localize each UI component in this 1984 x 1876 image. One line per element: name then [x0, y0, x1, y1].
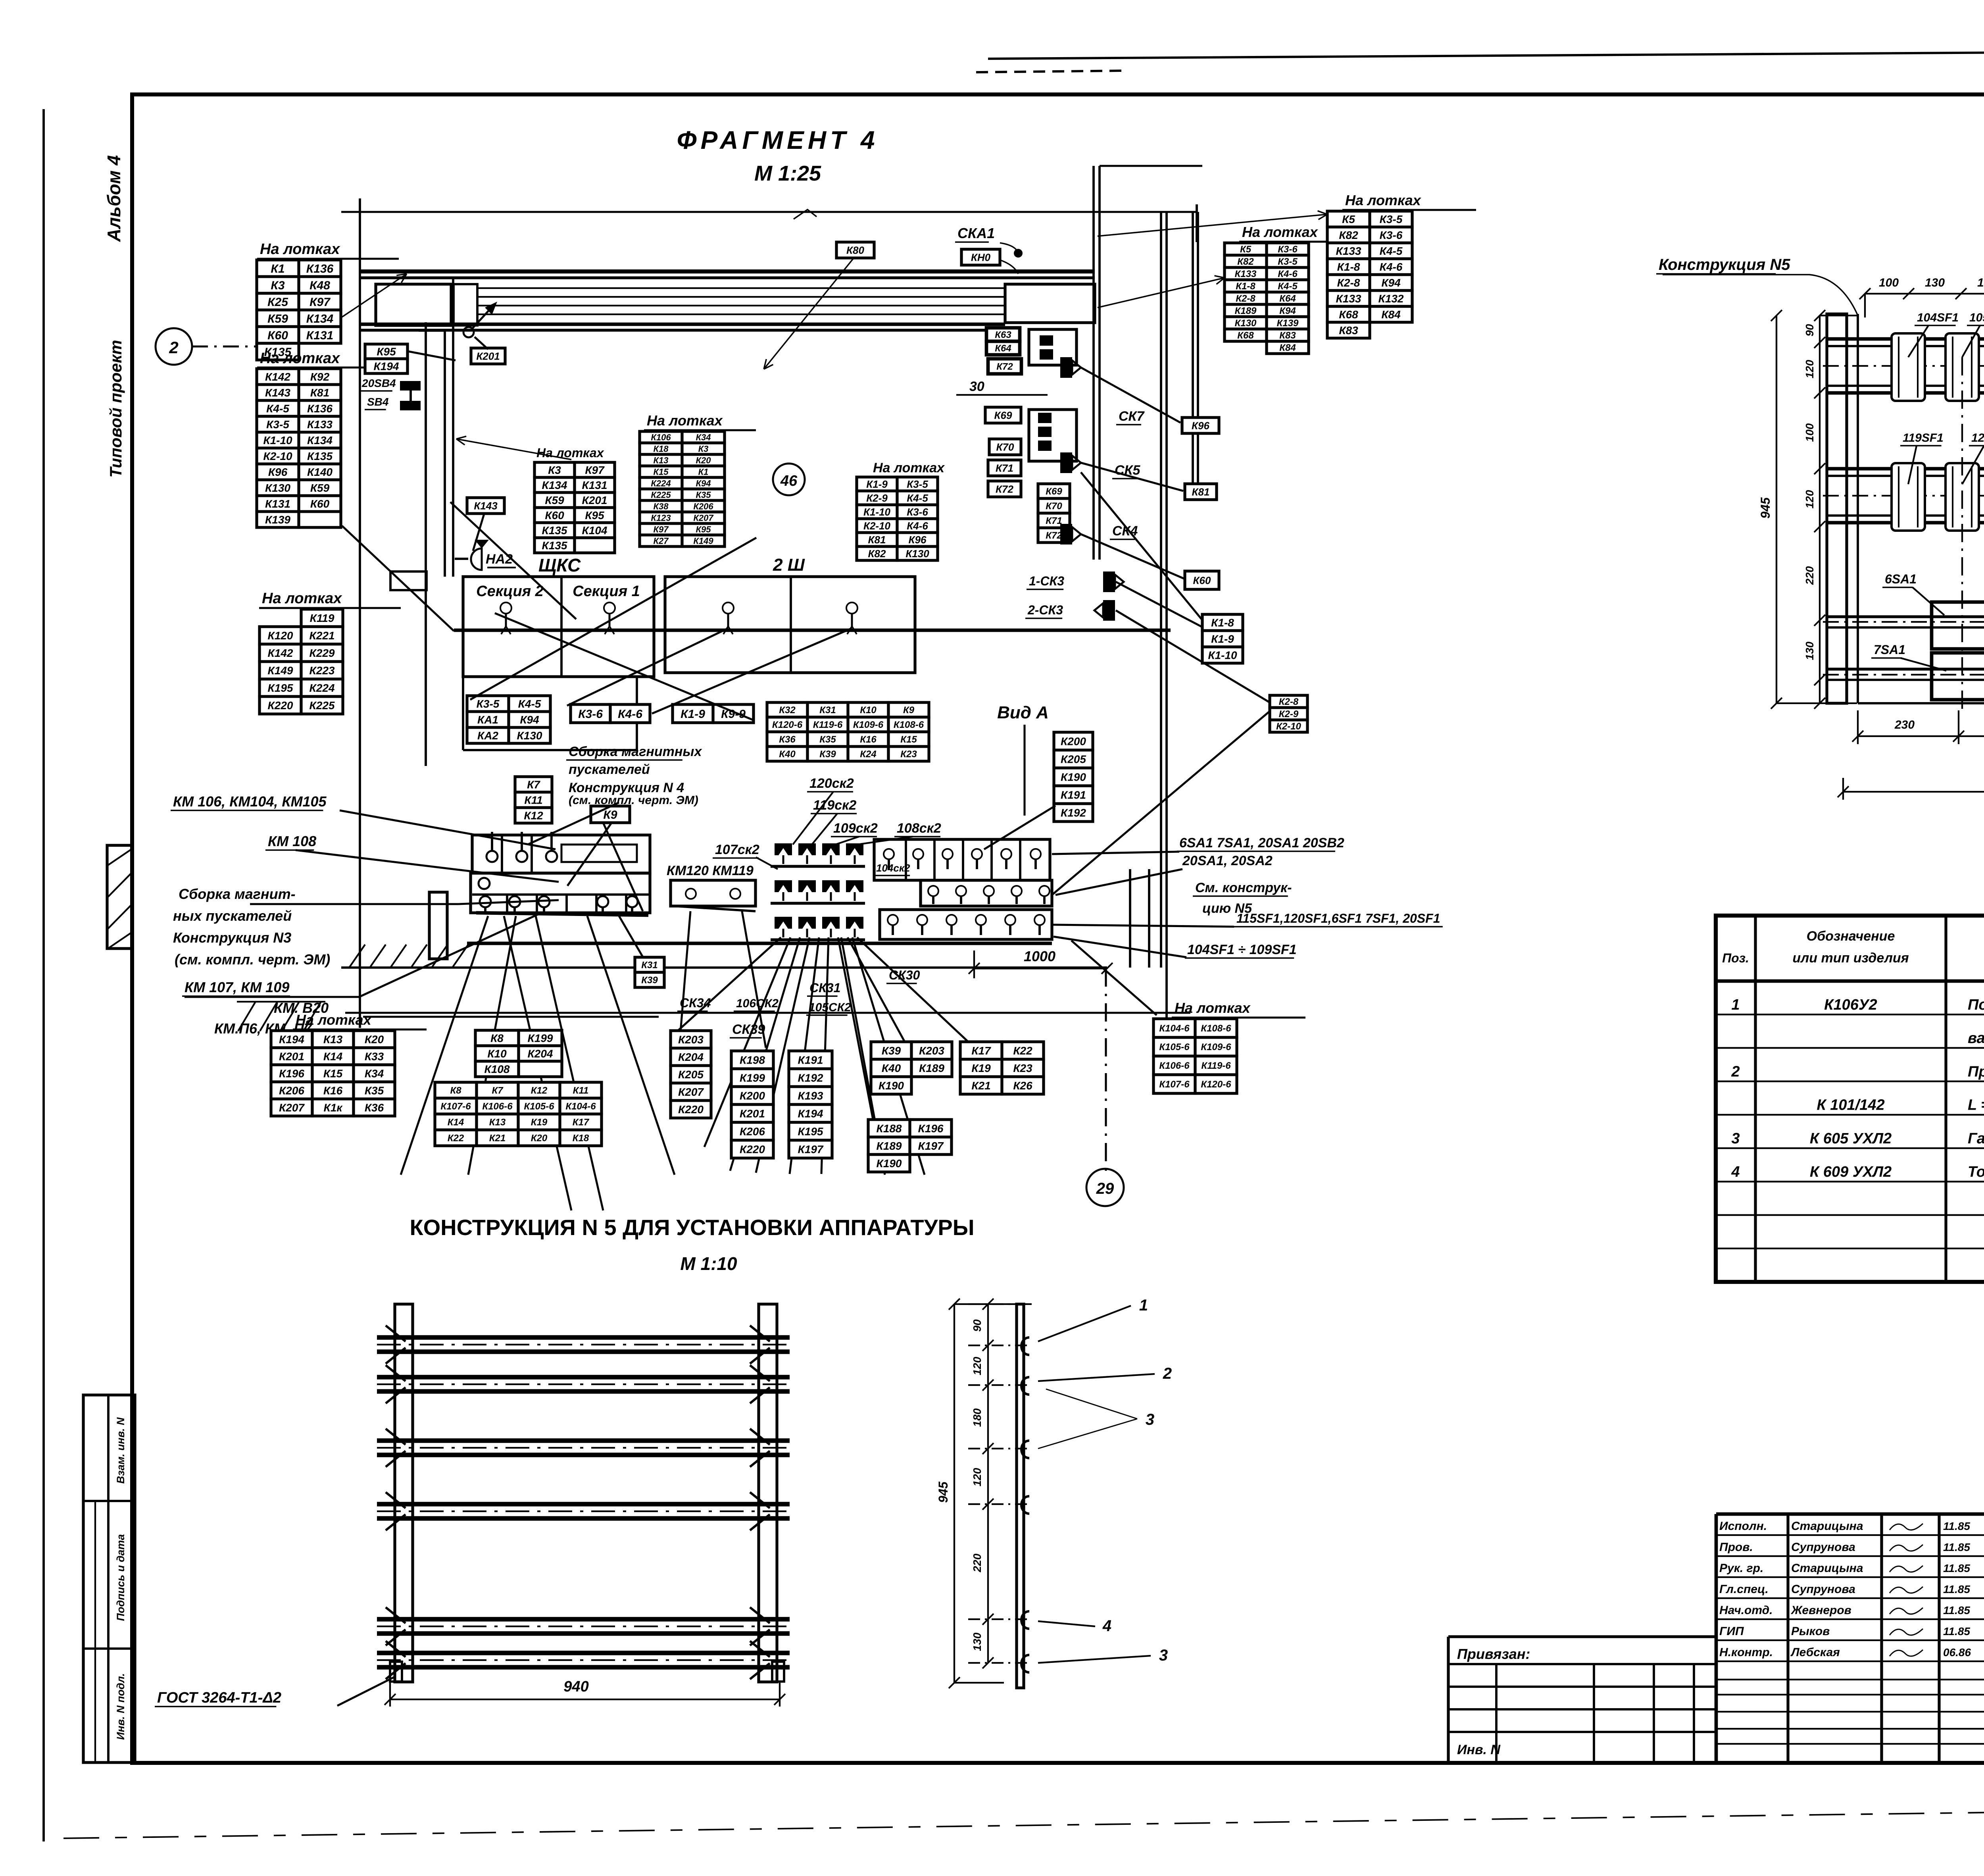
- svg-text:1: 1: [1731, 997, 1740, 1013]
- svg-text:КМ 108: КМ 108: [268, 833, 316, 849]
- svg-text:Инв. N: Инв. N: [1457, 1742, 1501, 1757]
- svg-text:Альбом 4: Альбом 4: [104, 155, 124, 242]
- svg-text:120: 120: [971, 1356, 983, 1375]
- svg-text:К189: К189: [877, 1140, 902, 1152]
- svg-text:К18: К18: [573, 1133, 589, 1144]
- svg-text:К94: К94: [696, 478, 711, 488]
- svg-text:К13: К13: [489, 1117, 506, 1128]
- label K72: [988, 481, 1021, 497]
- svg-text:К34: К34: [365, 1068, 384, 1080]
- label K143: [467, 498, 504, 514]
- svg-text:К3-5: К3-5: [477, 698, 500, 710]
- table K191 col: [789, 1051, 832, 1158]
- svg-text:К3-5: К3-5: [1278, 256, 1298, 267]
- svg-text:КМ 107, КМ 109: КМ 107, КМ 109: [185, 979, 289, 995]
- svg-text:130: 130: [1925, 276, 1945, 289]
- table T8: [1327, 211, 1412, 338]
- svg-text:К136: К136: [307, 402, 333, 415]
- wall pair right 2: [1098, 166, 1101, 560]
- svg-text:На лотках: На лотках: [260, 241, 340, 258]
- label K69: [985, 407, 1021, 423]
- svg-text:К136: К136: [306, 262, 334, 275]
- svg-text:Инв. N подл.: Инв. N подл.: [115, 1673, 127, 1740]
- svg-text:К48: К48: [310, 279, 330, 292]
- svg-text:К119-6: К119-6: [1201, 1060, 1231, 1071]
- starter base line: [476, 913, 648, 915]
- svg-text:К17: К17: [573, 1117, 590, 1128]
- wall pier rect: [429, 892, 447, 959]
- svg-text:К3-5: К3-5: [266, 418, 289, 431]
- svg-text:К20: К20: [696, 455, 711, 465]
- label K80: [836, 242, 874, 258]
- svg-text:Полоса монтажная перфорире-: Полоса монтажная перфорире-: [1968, 997, 1984, 1013]
- svg-text:К35: К35: [696, 490, 711, 500]
- svg-text:ГИП: ГИП: [1719, 1625, 1744, 1638]
- label K70: [989, 439, 1021, 455]
- side total 945: [954, 1304, 955, 1683]
- svg-text:ГОСТ 3264-Т1-Δ2: ГОСТ 3264-Т1-Δ2: [157, 1689, 281, 1706]
- svg-text:К207: К207: [279, 1102, 305, 1114]
- svg-text:К149: К149: [693, 536, 713, 546]
- table K39 K203: [871, 1042, 952, 1094]
- svg-text:130: 130: [971, 1632, 983, 1651]
- plan top wall lower: [360, 276, 1095, 279]
- tray line 1: [477, 287, 1005, 289]
- svg-text:2: 2: [169, 338, 178, 357]
- svg-text:К35: К35: [365, 1085, 384, 1097]
- leader 120SK2: [793, 792, 833, 845]
- svg-text:К82: К82: [868, 548, 886, 560]
- svg-text:К64: К64: [1279, 293, 1296, 304]
- svg-text:945: 945: [936, 1481, 950, 1503]
- svg-text:К95: К95: [585, 509, 604, 521]
- svg-text:То же: То же: [1968, 1164, 1984, 1180]
- svg-text:К9: К9: [603, 808, 617, 822]
- svg-text:К123: К123: [651, 513, 671, 523]
- svg-text:К106-6: К106-6: [482, 1101, 513, 1112]
- svg-text:06.86: 06.86: [1943, 1646, 1971, 1659]
- svg-text:На лотках: На лотках: [647, 412, 723, 429]
- table bottom 4x4: [435, 1082, 602, 1146]
- leader to Na lotkah bottom-right: [1071, 941, 1157, 1015]
- svg-text:К190: К190: [1061, 771, 1086, 783]
- svg-text:Старицына: Старицына: [1791, 1562, 1863, 1575]
- svg-text:К15: К15: [900, 734, 917, 745]
- lamp symbol NA2: [471, 548, 482, 570]
- SK2 connector r0c2: [822, 843, 840, 864]
- svg-text:К1-8: К1-8: [1337, 261, 1360, 273]
- label K201: [471, 348, 505, 364]
- leader K80 to wall: [764, 259, 853, 369]
- connector SK7: [1060, 357, 1081, 378]
- right wall line 2: [1165, 212, 1168, 1028]
- svg-text:L = 940 мм: L = 940 мм: [1968, 1097, 1984, 1114]
- long diagonal leader 3: [495, 613, 754, 720]
- section circle 29: [1086, 1169, 1124, 1206]
- svg-text:К13: К13: [323, 1033, 343, 1046]
- svg-text:130: 130: [1977, 276, 1984, 289]
- svg-text:К82: К82: [1339, 229, 1358, 241]
- svg-text:К106-6: К106-6: [1159, 1060, 1190, 1071]
- svg-text:К59: К59: [267, 312, 288, 325]
- table K1-8 group: [1202, 614, 1243, 663]
- ViewA left dimension chain: [1819, 316, 1821, 703]
- svg-text:К204: К204: [678, 1051, 704, 1063]
- operator figure 2: [604, 602, 615, 634]
- svg-text:К192: К192: [1061, 807, 1086, 819]
- svg-text:К206: К206: [693, 501, 713, 511]
- svg-text:К225: К225: [651, 490, 671, 500]
- svg-text:К194: К194: [798, 1108, 823, 1120]
- ViewA total height 945: [1776, 316, 1777, 703]
- svg-text:К59: К59: [545, 494, 564, 506]
- svg-text:К109-6: К109-6: [853, 720, 884, 730]
- svg-text:К196: К196: [918, 1122, 944, 1135]
- svg-text:90: 90: [1803, 324, 1816, 337]
- panel ShchKS: [463, 577, 654, 677]
- svg-text:К221: К221: [310, 629, 335, 642]
- SK2 connector r1c0: [775, 880, 792, 901]
- label K3-6 K4-6: [571, 704, 650, 723]
- svg-text:К11: К11: [524, 794, 542, 806]
- svg-text:К1-8: К1-8: [1211, 617, 1234, 629]
- table T6: [857, 477, 938, 560]
- svg-text:Конструкция N5: Конструкция N5: [1659, 256, 1790, 273]
- rack rail 3: [377, 1438, 790, 1443]
- svg-text:К9: К9: [903, 705, 915, 716]
- rack rail 5: [377, 1617, 790, 1622]
- svg-text:945: 945: [1758, 497, 1773, 519]
- svg-text:К22: К22: [448, 1133, 464, 1144]
- svg-text:К120: К120: [268, 629, 293, 642]
- right wall line 1: [1160, 212, 1162, 968]
- svg-text:К36: К36: [365, 1102, 384, 1114]
- svg-text:1: 1: [1139, 1297, 1148, 1314]
- leaders of right notes: [1052, 852, 1179, 854]
- svg-text:К92: К92: [310, 371, 330, 383]
- svg-text:К17: К17: [971, 1045, 991, 1057]
- connector 1-SK3: [1103, 571, 1124, 592]
- svg-text:К133: К133: [307, 418, 333, 431]
- leader Vid A: [1023, 725, 1025, 816]
- svg-text:К71: К71: [1046, 516, 1062, 526]
- label KN0: [961, 249, 1000, 265]
- wall pair right 1: [1092, 166, 1095, 560]
- svg-text:К19: К19: [531, 1117, 548, 1128]
- panel ShchKS lower part: [462, 677, 464, 750]
- svg-text:На лотках: На лотках: [260, 350, 340, 367]
- svg-text:К15: К15: [323, 1068, 343, 1080]
- svg-text:11.85: 11.85: [1943, 1583, 1970, 1595]
- long diagonal leader 1: [450, 502, 576, 619]
- long leader to K2-8: [1052, 711, 1270, 895]
- corridor wall 2b: [452, 278, 454, 577]
- svg-text:К21: К21: [971, 1079, 990, 1092]
- tray line 3: [477, 305, 1005, 306]
- svg-text:К133: К133: [1336, 292, 1361, 305]
- svg-text:К201: К201: [279, 1051, 304, 1063]
- svg-text:К1-9: К1-9: [866, 478, 888, 490]
- svg-text:КА1: КА1: [477, 714, 498, 726]
- svg-text:К84: К84: [1279, 342, 1296, 353]
- svg-text:К31: К31: [641, 960, 657, 971]
- svg-text:К12: К12: [524, 810, 543, 822]
- svg-text:К199: К199: [740, 1072, 765, 1084]
- table K2-8 group: [1270, 695, 1307, 732]
- svg-text:106СК2: 106СК2: [736, 997, 779, 1010]
- svg-text:К19: К19: [971, 1062, 991, 1074]
- leader 109SK2: [835, 837, 859, 845]
- svg-text:К3-6: К3-6: [1278, 244, 1298, 255]
- svg-text:К24: К24: [860, 749, 876, 760]
- leader T4 to wall: [456, 436, 571, 460]
- equipment box B: [454, 284, 477, 325]
- leader K143: [473, 514, 484, 551]
- SK2 connector rows (middle): [771, 865, 865, 868]
- svg-text:К133: К133: [1336, 245, 1361, 257]
- svg-text:К191: К191: [1061, 789, 1086, 801]
- svg-text:К198: К198: [740, 1054, 765, 1066]
- svg-text:К1-8: К1-8: [1236, 281, 1255, 292]
- svg-text:К60: К60: [545, 509, 564, 521]
- leaders SF row2: [1908, 446, 1917, 484]
- svg-text:К190: К190: [877, 1157, 902, 1170]
- title block top: [1716, 1512, 1984, 1516]
- svg-text:К97: К97: [654, 524, 669, 534]
- rack rail 2: [377, 1375, 790, 1380]
- svg-text:К119-6: К119-6: [813, 720, 843, 730]
- ViewA rail group 2: [1827, 467, 1984, 471]
- svg-text:К130: К130: [517, 729, 542, 742]
- long diagonal leader 2: [470, 538, 756, 700]
- svg-text:2-СК3: 2-СК3: [1027, 603, 1063, 617]
- svg-text:К81: К81: [310, 387, 329, 399]
- svg-text:К3-6: К3-6: [1380, 229, 1403, 241]
- breaker row2 #2: [1946, 463, 1979, 531]
- svg-text:К2-8: К2-8: [1337, 277, 1360, 289]
- svg-text:К7: К7: [492, 1085, 504, 1096]
- svg-text:К20: К20: [531, 1133, 548, 1144]
- svg-text:30: 30: [969, 379, 984, 394]
- svg-text:К104-6: К104-6: [565, 1101, 596, 1112]
- svg-text:К94: К94: [1279, 306, 1296, 316]
- svg-text:Нач.отд.: Нач.отд.: [1719, 1604, 1773, 1617]
- svg-text:Исполн.: Исполн.: [1719, 1520, 1767, 1533]
- svg-text:К224: К224: [310, 682, 335, 694]
- side item leaders: [1038, 1306, 1131, 1341]
- table bottom-right 4x2: [1153, 1019, 1237, 1093]
- right edge tick: [1196, 204, 1198, 242]
- svg-text:К72: К72: [996, 362, 1013, 372]
- table T3: [260, 609, 343, 714]
- svg-text:К3: К3: [548, 464, 561, 476]
- svg-text:На лотках: На лотках: [1175, 1000, 1251, 1016]
- section circle 46: [773, 464, 805, 495]
- svg-text:К97: К97: [585, 464, 605, 476]
- tray line 4: [477, 314, 1005, 315]
- svg-text:К70: К70: [996, 441, 1014, 453]
- svg-text:7SA1: 7SA1: [1874, 643, 1905, 657]
- connector SK4: [1060, 524, 1081, 545]
- leader to table T8: [1098, 211, 1327, 236]
- svg-text:29: 29: [1096, 1180, 1114, 1197]
- svg-text:К8: К8: [450, 1085, 461, 1096]
- svg-text:К207: К207: [678, 1086, 704, 1098]
- table K17 K22: [960, 1042, 1044, 1094]
- svg-text:Конструкция N 4: Конструкция N 4: [569, 780, 684, 795]
- svg-text:М 1:10: М 1:10: [680, 1253, 737, 1274]
- svg-text:120: 120: [971, 1468, 983, 1486]
- connector SK5: [1060, 452, 1081, 473]
- svg-text:К104-6: К104-6: [1159, 1023, 1190, 1034]
- side view hooks: [1021, 1337, 1029, 1355]
- svg-text:К11: К11: [573, 1085, 589, 1096]
- svg-text:К16: К16: [323, 1085, 343, 1097]
- equipment row base line: [467, 942, 1052, 945]
- svg-text:3: 3: [1731, 1130, 1740, 1147]
- svg-text:К5: К5: [1240, 244, 1252, 255]
- svg-text:К4-6: К4-6: [1278, 269, 1298, 279]
- paper left edge line: [42, 109, 45, 1841]
- plan top wall upper: [360, 269, 1095, 273]
- svg-text:120: 120: [1803, 490, 1816, 508]
- svg-text:На лотках: На лотках: [262, 590, 342, 607]
- svg-text:К131: К131: [306, 329, 334, 342]
- rack rail 1: [377, 1335, 790, 1340]
- table 4x4 K32: [767, 702, 929, 761]
- svg-text:К10: К10: [860, 705, 877, 716]
- svg-text:К 101/142: К 101/142: [1817, 1097, 1884, 1114]
- svg-text:К72: К72: [996, 483, 1013, 495]
- leader 119SK2: [812, 814, 837, 845]
- svg-text:К120-6: К120-6: [1201, 1079, 1231, 1090]
- table K7 group: [515, 777, 552, 823]
- leader K190 table: [984, 806, 1055, 849]
- svg-text:Вид А: Вид А: [997, 703, 1049, 722]
- table K188 K196: [868, 1120, 952, 1172]
- svg-text:220: 220: [971, 1553, 983, 1572]
- svg-text:Пров.: Пров.: [1719, 1541, 1753, 1554]
- corridor stub: [419, 329, 445, 332]
- label K81: [1185, 484, 1217, 500]
- svg-text:Жевнеров: Жевнеров: [1790, 1604, 1851, 1617]
- leader to table T7: [1098, 276, 1225, 308]
- svg-text:К 609 УХЛ2: К 609 УХЛ2: [1810, 1164, 1892, 1180]
- side dim chain: [987, 1304, 989, 1663]
- ViewA left C-profile: [1827, 314, 1847, 703]
- svg-text:119SF1: 119SF1: [1903, 431, 1944, 444]
- svg-text:11.85: 11.85: [1943, 1562, 1970, 1574]
- svg-text:К72: К72: [1046, 530, 1062, 541]
- svg-text:К224: К224: [651, 478, 671, 488]
- svg-text:К105-6: К105-6: [524, 1101, 554, 1112]
- svg-text:К119: К119: [310, 612, 335, 624]
- svg-text:К193: К193: [798, 1090, 823, 1102]
- paper bottom edge line: [63, 1805, 1984, 1838]
- svg-text:К36: К36: [779, 734, 796, 745]
- rack rail 6: [377, 1651, 790, 1655]
- plan bottom line: [341, 966, 1107, 969]
- svg-text:К13: К13: [654, 455, 669, 465]
- svg-text:107ск2: 107ск2: [715, 842, 759, 857]
- wall stub 1: [1129, 869, 1131, 968]
- svg-text:К131: К131: [582, 479, 608, 491]
- rack post feet: [390, 1662, 402, 1682]
- svg-text:К197: К197: [918, 1140, 944, 1152]
- svg-text:К107-6: К107-6: [440, 1101, 471, 1112]
- rack left post: [395, 1304, 413, 1682]
- svg-text:К143: К143: [474, 500, 498, 512]
- top dashed scan artifact: [976, 71, 1127, 72]
- svg-text:Лебская: Лебская: [1790, 1646, 1840, 1659]
- svg-text:К225: К225: [310, 699, 335, 712]
- svg-text:К69: К69: [1046, 486, 1062, 497]
- svg-text:20SA1, 20SA2: 20SA1, 20SA2: [1182, 853, 1273, 868]
- svg-text:К108-6: К108-6: [894, 720, 924, 730]
- tray line 2: [477, 296, 1005, 298]
- magnetic starter assembly left: [472, 835, 650, 873]
- svg-text:К39: К39: [819, 749, 836, 760]
- svg-text:К201: К201: [476, 350, 500, 362]
- breaker row2 #1: [1892, 463, 1925, 531]
- svg-text:К134: К134: [306, 312, 334, 325]
- svg-text:К220: К220: [740, 1143, 765, 1156]
- svg-text:КН0: КН0: [971, 251, 991, 263]
- svg-text:М 1:25: М 1:25: [754, 162, 821, 185]
- svg-text:11.85: 11.85: [1943, 1541, 1970, 1553]
- svg-text:К195: К195: [798, 1126, 823, 1138]
- svg-text:К80: К80: [846, 244, 864, 256]
- svg-text:К134: К134: [307, 434, 333, 446]
- svg-text:К205: К205: [1061, 753, 1086, 766]
- table K69 group: [1038, 484, 1070, 543]
- table T2: [257, 369, 341, 527]
- leader T2 to wall: [342, 526, 454, 631]
- svg-text:1-СК3: 1-СК3: [1029, 574, 1064, 588]
- svg-text:К1: К1: [698, 467, 709, 477]
- svg-text:К135: К135: [307, 450, 333, 462]
- left margin bottom stamp strip: [83, 1395, 135, 1762]
- svg-text:К26: К26: [1013, 1079, 1032, 1092]
- svg-text:К106У2: К106У2: [1824, 997, 1877, 1013]
- svg-text:ных пускателей: ных пускателей: [173, 908, 292, 924]
- svg-text:пускателей: пускателей: [569, 762, 650, 777]
- svg-text:К 605 УХЛ2: К 605 УХЛ2: [1810, 1130, 1892, 1147]
- svg-text:К3: К3: [271, 279, 285, 292]
- svg-text:К104: К104: [582, 524, 608, 537]
- SK2 connector r2c0: [775, 917, 792, 937]
- svg-text:К1-10: К1-10: [863, 506, 891, 518]
- svg-text:К142: К142: [268, 647, 293, 659]
- svg-text:К33: К33: [365, 1051, 384, 1063]
- svg-text:Подпись и дата: Подпись и дата: [115, 1534, 127, 1621]
- svg-text:К3-6: К3-6: [578, 708, 603, 721]
- svg-text:К139: К139: [265, 514, 290, 526]
- panel 2Sh: [665, 577, 915, 673]
- svg-text:К199: К199: [528, 1032, 553, 1045]
- SK2 connector r2c1: [798, 917, 816, 937]
- svg-text:К4-6: К4-6: [1380, 261, 1403, 273]
- plan beam line upper: [360, 323, 1005, 326]
- plan left axis wall: [359, 198, 361, 1028]
- svg-text:2 Ш: 2 Ш: [773, 555, 805, 575]
- svg-text:КОНСТРУКЦИЯ N 5 ДЛЯ УСТАНОВКИ: КОНСТРУКЦИЯ N 5 ДЛЯ УСТАНОВКИ АППАРАТУРЫ: [409, 1215, 974, 1240]
- svg-text:4: 4: [1731, 1164, 1740, 1180]
- svg-text:К27: К27: [654, 536, 669, 546]
- extra rows under signatures: [1716, 1679, 1984, 1680]
- svg-text:К106: К106: [651, 432, 671, 442]
- svg-text:К16: К16: [860, 734, 877, 745]
